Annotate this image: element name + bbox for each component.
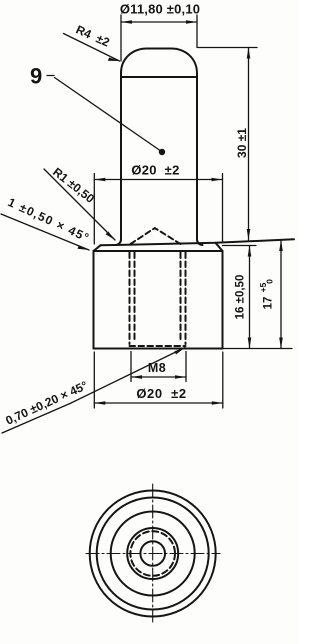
dim 16 dimension line bbox=[249, 246, 251, 349]
bottom view horizontal centerline bbox=[86, 553, 220, 555]
arrow dim ⌀11,80 right bbox=[186, 20, 197, 24]
thread hole hidden line inner-right bbox=[180, 253, 182, 342]
dim lower ⌀20 dimension line bbox=[94, 402, 223, 404]
dim ⌀11,80 left extension line bbox=[120, 15, 122, 61]
leader 9 end dot bbox=[159, 149, 165, 155]
dim lower ⌀20 left extension line bbox=[93, 352, 95, 408]
arrow dim lower ⌀20 left bbox=[94, 401, 105, 405]
shaft right edge bbox=[196, 74, 198, 240]
shaft right fillet R1 bbox=[197, 240, 203, 246]
thread hole hidden line outer-left bbox=[129, 253, 131, 345]
svg-text:17: 17 bbox=[263, 297, 275, 310]
thread hole hidden line outer-right bbox=[185, 253, 187, 345]
arrow leader R4 bbox=[108, 58, 120, 62]
base right edge bbox=[222, 251, 224, 349]
dim upper ⌀20 dimension line bbox=[94, 179, 222, 181]
svg-text:1 ±0,50 × 45°: 1 ±0,50 × 45° bbox=[6, 195, 92, 245]
arrow dim 17 bottom bbox=[279, 338, 283, 349]
dim 16 top extension line bbox=[223, 245, 257, 247]
arrow dim upper ⌀20 left bbox=[94, 178, 105, 182]
arrow dim ⌀11,80 left bbox=[121, 20, 132, 24]
arrow dim M8 right bbox=[175, 375, 186, 379]
svg-text:0,70 ±0,20 × 45°: 0,70 ±0,20 × 45° bbox=[3, 378, 89, 428]
arrow dim M8 left bbox=[131, 375, 142, 379]
svg-text:30 ±1: 30 ±1 bbox=[235, 128, 249, 158]
bottom view chamfer circle bbox=[97, 498, 209, 610]
drill cone hidden lines bbox=[131, 228, 181, 244]
dim M8 dimension line bbox=[131, 376, 186, 378]
arrow dim 16 top bbox=[248, 246, 252, 257]
dim upper ⌀20 right extension line bbox=[222, 174, 224, 242]
dim 30 dimension line bbox=[248, 48, 250, 241]
leader 9 line bbox=[55, 78, 162, 152]
bottom view vertical centerline bbox=[152, 484, 154, 622]
base right chamfer 1x45 bbox=[216, 243, 223, 251]
dome tangent line bbox=[121, 76, 197, 78]
dim M8 left extension line bbox=[130, 352, 132, 382]
svg-text:Ø20 ±2: Ø20 ±2 bbox=[136, 386, 186, 401]
leader 1x45 bbox=[1, 214, 89, 250]
base bottom edge bbox=[94, 348, 223, 350]
dim upper ⌀20 left extension line bbox=[93, 174, 95, 245]
base chamfer bottom line bbox=[94, 250, 223, 252]
thread hole hidden line inner-left bbox=[134, 253, 136, 342]
arrow dim upper ⌀20 right bbox=[212, 178, 223, 182]
dim M8 right extension line bbox=[185, 352, 187, 382]
svg-text:R4 ±2: R4 ±2 bbox=[74, 22, 112, 49]
bottom view hole circle bbox=[140, 541, 165, 566]
dim 17 dimension line bbox=[280, 240, 282, 349]
bottom view shaft circle bbox=[111, 512, 195, 596]
svg-text:Ø20 ±2: Ø20 ±2 bbox=[131, 163, 179, 178]
dim ⌀11,80 right extension line bbox=[196, 15, 198, 47]
svg-text:R1 ±0,50: R1 ±0,50 bbox=[50, 165, 97, 206]
dim ⌀11,80 dimension line bbox=[121, 21, 197, 23]
arrow dim 16 bottom bbox=[248, 338, 252, 349]
leader R4 bbox=[64, 34, 120, 62]
leader 9 dash bbox=[47, 75, 54, 77]
svg-text:M8: M8 bbox=[148, 361, 166, 375]
dim 30 top extension line bbox=[197, 47, 257, 49]
arrow leader 1x45 bbox=[78, 245, 90, 250]
arrow dim 30 bottom bbox=[247, 229, 251, 240]
arrow dim lower ⌀20 right bbox=[212, 401, 223, 405]
bottom view thread circle dashed bbox=[130, 531, 175, 576]
svg-text:16 ±0,50: 16 ±0,50 bbox=[235, 275, 247, 320]
leader 0,70x45 bbox=[2, 348, 185, 434]
dim 17 bottom extension line bbox=[223, 348, 293, 350]
leader R1 bbox=[44, 169, 115, 240]
bottom view outer circle bbox=[90, 491, 216, 617]
arrow dim 30 top bbox=[247, 48, 251, 59]
arrow leader R1 bbox=[106, 232, 115, 241]
shaft left edge bbox=[120, 73, 122, 240]
svg-text:0: 0 bbox=[265, 279, 275, 284]
arrow leader 0,70x45 bbox=[175, 348, 186, 355]
base left edge bbox=[93, 251, 95, 349]
svg-text:Ø11,80 ±0,10: Ø11,80 ±0,10 bbox=[120, 2, 200, 17]
svg-text:9: 9 bbox=[30, 64, 42, 89]
dome (rounded head top of shaft) bbox=[121, 49, 197, 74]
bottom view hole chamfer circle bbox=[127, 528, 178, 579]
dim lower ⌀20 right extension line bbox=[222, 352, 224, 408]
shaft left fillet R1 bbox=[116, 240, 122, 246]
base left chamfer 1x45 bbox=[94, 245, 101, 251]
hole bottom hidden line bbox=[130, 345, 186, 347]
base top face bbox=[101, 239, 295, 245]
arrow dim 17 top bbox=[279, 240, 283, 251]
